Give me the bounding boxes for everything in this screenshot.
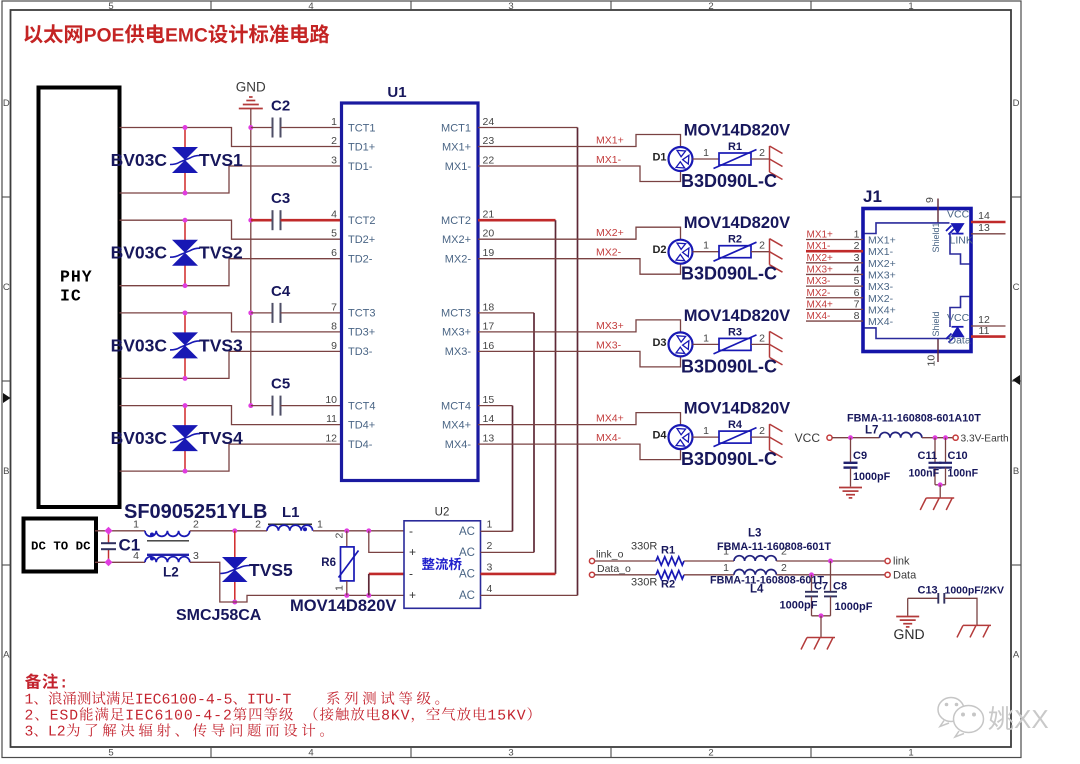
svg-text:1: 1 [703,147,709,159]
wire J1 pin 6 (MX2-) [806,297,863,299]
wire VCC to L7 [832,437,879,439]
svg-text:1000pF: 1000pF [853,471,891,483]
watermark wechat face [938,698,984,738]
PHY IC block [39,88,120,508]
wire J1 pin 12 (VCC) [971,325,1006,327]
svg-text:MX4+: MX4+ [596,413,624,425]
svg-text:1: 1 [908,1,913,12]
J1 internal shield bus top [865,223,950,234]
svg-text:14: 14 [483,413,495,425]
port Data_o [589,572,594,577]
svg-text:VCC: VCC [795,431,821,445]
svg-text:D4: D4 [652,430,667,442]
junction TVS3 bottom [183,376,188,381]
wire C4 to U1 pin 7 [281,312,342,314]
svg-text:15: 15 [483,394,495,406]
J1 LINK led [946,224,964,235]
wire D1 to R1 [693,158,720,160]
svg-text:DC TO DC: DC TO DC [31,540,91,554]
svg-text:MX4-: MX4- [868,316,894,328]
svg-text:TVS3: TVS3 [199,335,243,355]
wire D3 to R3 [693,343,720,345]
svg-text:MX1+: MX1+ [442,141,471,153]
svg-text:D2: D2 [652,244,666,256]
svg-text:1000pF/2KV: 1000pF/2KV [945,585,1005,597]
svg-text:5: 5 [854,275,860,287]
svg-text:24: 24 [483,116,495,128]
IC U2 rectifier bridge body [404,521,481,609]
wire L4 to Data port [776,574,885,576]
svg-text:3: 3 [854,252,860,264]
svg-text:5: 5 [108,748,113,759]
svg-text:D: D [3,98,10,109]
wire J1 pin 1 (MX1+) [806,239,863,241]
svg-text:AC: AC [459,590,475,602]
title 以太网POE供电EMC设计标准电路 [24,24,329,43]
svg-text:AC: AC [459,547,475,559]
wire trunk vertical MCT4 [512,406,514,532]
wire to chassis ground C7/C8 [820,616,822,638]
svg-text:MX2-: MX2- [445,254,472,266]
wire J1 pin 14 (VCC) - highlighted [971,221,1006,224]
TVS diode TVS3 BV03C [184,313,186,333]
svg-text:MCT3: MCT3 [441,308,471,320]
wire trunk vertical MCT2 [555,220,557,574]
junction TVS2 top [183,218,188,223]
capacitor C7 1000pF [811,575,813,592]
svg-text:B3D090L-C: B3D090L-C [681,449,777,469]
svg-text:9: 9 [331,340,337,352]
junction R6 top [344,528,349,533]
svg-text:MOV14D820V: MOV14D820V [684,214,790,232]
ground at C9 [839,488,862,498]
wire trunk vertical MCT1 [577,128,579,596]
svg-text:MX1+: MX1+ [807,230,834,241]
port Data [885,572,890,577]
svg-text:1000pF: 1000pF [835,601,873,613]
port link_o [589,558,594,563]
wire U2 pin4 to trunk MCT1 [481,594,578,596]
svg-text:4: 4 [487,583,493,595]
svg-text:MX3-: MX3- [596,339,622,351]
svg-text:MX2+: MX2+ [442,234,471,246]
svg-text:2: 2 [759,147,765,159]
svg-text:BV03C: BV03C [111,428,168,448]
svg-text:2: 2 [759,425,765,437]
wire L7 to 3.3V-Earth port [922,437,953,439]
capacitor C3 [251,219,272,222]
wire J1 pin 3 (MX2+) [806,262,863,264]
svg-text:2: 2 [708,748,713,759]
TVS diode TVS2 BV03C [184,220,186,240]
svg-text:C3: C3 [271,190,290,207]
ferrite bead L4 [734,569,776,574]
junction C1 top [105,527,113,535]
svg-text:12: 12 [325,433,337,445]
chassis ground at C10/C11 [920,498,954,510]
svg-text:+: + [409,545,416,559]
svg-text:-: - [409,567,413,581]
svg-text:J1: J1 [863,187,882,206]
varistor R2 MOV14D820V [719,246,751,258]
note line 3 [25,726,64,737]
svg-text:1: 1 [703,332,709,344]
ferrite bead L3 [734,556,776,561]
svg-text:MX1+: MX1+ [596,135,624,147]
svg-text:3: 3 [487,561,493,573]
J1 pin 9 (Shield1) [937,199,939,223]
svg-text:11: 11 [326,413,337,425]
notes header 备注: [25,673,65,689]
svg-text:3: 3 [508,1,513,12]
svg-text:8: 8 [854,310,860,322]
watermark text 姚XX [989,706,1049,730]
svg-text:2: 2 [708,1,713,12]
wire PHY to TVS2 top / U1 pin 5 [120,220,342,239]
junction gnd-net row C2 [248,125,253,130]
svg-text:MX3-: MX3- [868,281,894,293]
svg-text:TD3-: TD3- [348,346,373,358]
svg-text:-: - [409,524,413,538]
svg-text:AC: AC [459,526,475,538]
svg-text:MX4-: MX4- [596,432,622,444]
capacitor C8 1000pF [830,561,832,592]
port link [885,558,890,563]
svg-text:18: 18 [483,301,495,313]
svg-text:L4: L4 [750,584,764,596]
svg-text:17: 17 [483,320,495,332]
wire Data_o to R2 [595,574,656,576]
svg-text:TCT4: TCT4 [348,400,376,412]
svg-text:MX4-: MX4- [807,311,831,322]
junction R6 bottom [344,593,349,598]
svg-text:C11: C11 [918,450,938,462]
TVS diode TVS1 BV03C [184,128,186,148]
svg-text:1: 1 [331,116,337,128]
J1 internal step below LINK led [950,234,970,264]
TVS diode TVS5 SMCJ58CA [234,531,236,558]
svg-text:19: 19 [483,247,495,259]
svg-text:13: 13 [978,222,990,234]
svg-text:TVS1: TVS1 [199,150,243,170]
svg-text:U2: U2 [435,507,450,519]
svg-text:2: 2 [759,332,765,344]
note line 2 [26,707,532,722]
svg-text:3.3V-Earth: 3.3V-Earth [961,434,1009,445]
svg-text:R2: R2 [728,234,742,246]
svg-text:C9: C9 [853,450,867,462]
svg-text:MX4+: MX4+ [868,304,896,316]
note line 1 [26,691,291,704]
capacitor C11 100nF [934,438,936,463]
wire return path to U2 pin 5 [235,595,404,602]
svg-text:MCT1: MCT1 [441,122,471,134]
svg-text:4: 4 [133,550,139,562]
wire J1 pin 7 (MX4+) [806,308,863,310]
wire MCT2 (U1 pin21) to trunk - highlighted net [478,219,556,222]
svg-text:MX4+: MX4+ [807,299,834,310]
svg-text:TVS2: TVS2 [199,243,243,263]
J1 pin 10 (Shield) [937,339,939,363]
svg-text:MCT4: MCT4 [441,400,471,412]
svg-text:MX3+: MX3+ [868,269,896,281]
svg-text:2: 2 [255,518,261,530]
svg-text:VCC: VCC [947,312,970,324]
chassis ground at R3 [770,331,783,365]
svg-text:D1: D1 [652,152,666,164]
svg-text:MX3+: MX3+ [596,320,624,332]
varistor R3 MOV14D820V [719,338,751,350]
wire to chassis ground [939,485,941,498]
wire U2 pin7 jog [369,531,404,553]
junction gnd-net row C4 [248,310,253,315]
junction U2 pin6 jog bottom [366,593,371,598]
svg-text:VCC: VCC [947,209,970,221]
junction gnd-net row C3 [248,218,253,223]
svg-text:7: 7 [331,301,337,313]
wire U2 pin6 jog - highlighted [369,573,404,576]
svg-text:D: D [1013,98,1020,109]
wire MX3- to discharge tube D3 [478,351,681,367]
svg-text:MX2-: MX2- [807,288,831,299]
svg-text:MX4-: MX4- [445,439,472,451]
svg-text:R1: R1 [728,141,742,153]
svg-text:TCT2: TCT2 [348,215,376,227]
svg-text:SMCJ58CA: SMCJ58CA [176,607,262,624]
junction C9 top [848,435,853,440]
junction U2 pin7 jog top [366,528,371,533]
junction TVS4 bottom [183,469,188,474]
junction TVS4 top [183,403,188,408]
wire J1 pin 5 (MX3-) [806,285,863,287]
svg-text:TCT3: TCT3 [348,308,376,320]
wire PHY to TVS2 bottom / U1 pin 6 [120,259,342,286]
wire PHY to TVS3 top / U1 pin 8 [120,313,342,332]
svg-text:U1: U1 [387,84,406,101]
svg-text:Data: Data [893,570,917,582]
wire L3 to link port [776,560,885,562]
inductor L1 [268,523,312,525]
junction C10 top [943,435,948,440]
svg-text:2: 2 [759,240,765,252]
svg-text:L1: L1 [282,504,300,521]
wire PHY to TVS4 bottom / U1 pin 12 [120,444,342,471]
svg-text:SF0905251YLB: SF0905251YLB [124,501,267,523]
svg-text:TD3+: TD3+ [348,327,375,339]
svg-text:C2: C2 [271,98,290,115]
J1 internal shield bus bottom [865,328,950,339]
frame mid-height arrow left [3,393,11,403]
wire U2 pin2 to trunk MCT3 [481,551,535,553]
svg-text:C5: C5 [271,376,290,393]
svg-text:C10: C10 [948,450,968,462]
wire MX4- to discharge tube D4 [478,444,681,460]
svg-text:MX2+: MX2+ [596,227,624,239]
svg-text:MX1+: MX1+ [868,235,896,247]
IC U1 body [342,103,479,481]
wire R3 to chassis ground [751,343,770,345]
svg-text:C7: C7 [814,581,828,593]
svg-text:R4: R4 [728,419,743,431]
svg-text:1: 1 [703,240,709,252]
svg-text:MX1-: MX1- [807,241,831,252]
frame row ticks left/right [2,196,11,198]
svg-text:B: B [1013,466,1019,477]
discharge tube D4 B3D090L-C [669,425,693,449]
svg-text:B3D090L-C: B3D090L-C [681,171,777,191]
wire J1 pin 11 (Data) - highlighted [971,335,1006,338]
wire PHY to TVS4 top / U1 pin 11 [120,406,342,425]
svg-text:TD1+: TD1+ [348,141,375,153]
svg-text:4: 4 [331,209,337,221]
svg-text:FBMA-11-160808-601T: FBMA-11-160808-601T [717,541,831,553]
svg-text:TD2+: TD2+ [348,234,375,246]
svg-text:TD4-: TD4- [348,439,373,451]
svg-text:MX3+: MX3+ [807,264,834,275]
J1 internal step above Data led [950,297,970,328]
J1 Data led [946,327,964,343]
svg-text:9: 9 [924,197,936,203]
wire C5 to U1 pin 10 [281,405,342,407]
svg-text:8: 8 [331,320,337,332]
svg-text:LINK: LINK [950,235,973,247]
svg-text:22: 22 [483,155,495,167]
wire MX4+ to discharge tube D4 [478,413,681,426]
svg-text:TD1-: TD1- [348,161,373,173]
wire R1 to chassis ground [751,158,770,160]
chassis ground at R1 [770,146,783,180]
transformer L2 bottom winding [145,557,190,563]
svg-text:4: 4 [854,263,860,275]
svg-text:+: + [409,588,416,602]
svg-text:C: C [1013,282,1020,293]
wire link_o to R1 [595,560,656,562]
wire C3 to U1 pin 4 [281,219,342,222]
svg-text:FBMA-11-160808-601A10T: FBMA-11-160808-601A10T [847,413,981,425]
resistor R2 330R [656,571,684,579]
svg-text:MX1-: MX1- [596,154,622,166]
svg-text:link_o: link_o [596,549,624,561]
svg-text:BV03C: BV03C [111,335,168,355]
svg-text:L7: L7 [865,425,878,437]
power symbol GND (top) [239,97,263,109]
chassis ground at C7/C8 [801,638,835,650]
chassis ground at R4 [770,424,783,458]
svg-text:A: A [3,650,10,661]
wire MCT3 (U1 pin18) to trunk [478,312,534,314]
capacitor C5 [251,405,272,407]
svg-text:1: 1 [487,519,493,531]
varistor R1 MOV14D820V [719,153,751,165]
junction TVS5 bottom [232,600,237,605]
wire MCT4 (U1 pin15) to trunk [478,405,513,407]
svg-text:BV03C: BV03C [111,243,168,263]
svg-text:TD2-: TD2- [348,254,373,266]
wire MX1- to discharge tube D1 [478,166,681,182]
wire MCT1 (U1 pin24) to trunk [478,127,578,129]
wire U2 pin3 to trunk MCT2 - highlighted [481,573,556,576]
svg-text:11: 11 [979,325,990,337]
svg-text:C: C [3,282,10,293]
connector J1 body [863,209,971,352]
svg-text:4: 4 [308,1,313,12]
svg-text:FBMA-11-160808-601T: FBMA-11-160808-601T [710,575,824,587]
svg-text:Data: Data [949,335,971,347]
svg-text:A: A [1013,650,1020,661]
capacitor C2 [251,127,272,129]
chassis ground at C13 [957,625,991,637]
junction C1 bottom [105,558,113,566]
svg-text:C13: C13 [918,585,938,597]
svg-text:link: link [893,556,910,568]
discharge tube D1 B3D090L-C [669,147,693,171]
svg-text:C4: C4 [271,283,291,300]
svg-text:2: 2 [331,135,337,147]
svg-text:MX4+: MX4+ [442,419,471,431]
svg-text:MOV14D820V: MOV14D820V [684,400,790,418]
transformer core bars [147,540,189,542]
svg-text:L3: L3 [748,528,761,540]
svg-text:1: 1 [854,229,860,241]
svg-text:MOV14D820V: MOV14D820V [290,597,396,615]
svg-text:GND: GND [236,80,266,95]
wire transformer pin2 to L1 [190,530,267,532]
svg-text:6: 6 [854,287,860,299]
varistor R4 MOV14D820V [719,431,751,443]
discharge tube D2 B3D090L-C [669,240,693,264]
svg-text:2: 2 [781,562,787,574]
junction C8 top [828,559,833,564]
svg-text:MX3+: MX3+ [442,327,471,339]
svg-text:Data_o: Data_o [597,563,631,575]
svg-text:1: 1 [723,562,729,574]
svg-text:3: 3 [331,155,337,167]
svg-text:MOV14D820V: MOV14D820V [684,122,790,140]
port VCC [827,435,832,440]
resistor R1 330R [656,557,684,565]
wire trunk vertical MCT3 [533,313,535,553]
svg-text:R1: R1 [661,545,675,557]
wire MX2- to discharge tube D2 [478,259,681,275]
svg-text:330R: 330R [631,541,657,553]
junction C11 top [933,435,938,440]
svg-text:B: B [3,466,9,477]
svg-text:BV03C: BV03C [111,150,168,170]
svg-text:23: 23 [483,135,495,147]
capacitor C1 [108,531,110,543]
wire PHY to TVS3 bottom / U1 pin 9 [120,351,342,378]
svg-text:5: 5 [108,1,113,12]
TVS diode TVS4 BV03C [184,406,186,426]
wire R2 to L4 [684,574,734,576]
svg-text:C8: C8 [833,581,847,593]
svg-text:PHY: PHY [60,268,93,287]
svg-text:L2: L2 [163,565,179,580]
junction TVS3 top [183,310,188,315]
svg-text:Shield: Shield [931,311,941,336]
svg-text:1: 1 [334,585,346,591]
wire U2 pin1 to trunk MCT4 [481,530,513,532]
svg-text:3: 3 [508,748,513,759]
DC TO DC block [24,519,97,572]
svg-text:1000pF: 1000pF [780,600,818,612]
svg-text:1: 1 [703,425,709,437]
wire DCDC to transformer pin4 [95,561,145,563]
svg-text:AC: AC [459,569,475,581]
svg-text:MX2+: MX2+ [807,253,834,264]
frame column ticks top/bottom [210,1,212,10]
wire D4 to R4 [693,436,720,438]
